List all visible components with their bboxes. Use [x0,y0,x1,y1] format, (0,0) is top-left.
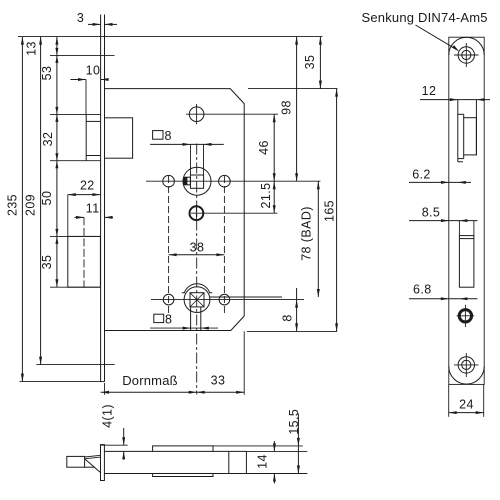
dimension 35 right top [319,37,322,89]
extension line 209 bottom [36,364,114,366]
dimension 11 (deadbolt retracted) [75,216,114,219]
svg-text:15.5: 15.5 [287,409,301,435]
extension + deadbolt bottom edge y287.2 [50,286,100,288]
lock case outline [105,89,245,331]
svg-text:10: 10 [86,64,101,78]
top countersunk screw hole [454,43,479,67]
dimension 24 [449,384,484,416]
locating hole below follower [190,205,204,221]
dimension 22 (deadbolt thrown) [68,193,101,236]
left flank hole bottom group [163,294,174,305]
follower circle [183,167,211,195]
deadbolt pocket in faceplate [459,236,474,288]
end cap line [228,451,230,473]
right flank hole top group [219,175,231,187]
cover boss strip top [153,446,213,452]
square-8 symbol bottom [150,314,218,329]
top hole with cross [186,104,278,124]
top extension line (faceplate top level) [18,36,322,38]
svg-text:32: 32 [41,132,55,147]
svg-text:33: 33 [211,374,226,388]
extension line y297 [210,296,282,298]
latch head top view [67,455,101,473]
dimension 8.5 [409,219,478,236]
dimension 209 line [39,37,42,365]
svg-text:6.2: 6.2 [412,167,431,181]
deadbolt retracted face centerline [83,217,85,287]
extension + deadbolt top edge y236.4 [50,235,100,237]
svg-text:53: 53 [40,66,54,81]
svg-text:165: 165 [323,200,337,222]
follower nose [184,177,190,185]
svg-text:22: 22 [80,179,95,193]
case top extension line right [248,88,338,90]
svg-text:8: 8 [165,129,172,143]
extension line y55 [50,54,115,56]
svg-text:78 (BAD): 78 (BAD) [300,206,314,261]
dimension 8 right [295,288,298,331]
deadbolt head [68,236,101,287]
svg-text:3: 3 [77,11,84,25]
dimension 98 [295,37,298,182]
svg-text:98: 98 [280,100,294,115]
horizontal centerline top group [146,180,320,182]
svg-text:6.8: 6.8 [413,282,432,296]
svg-text:35: 35 [40,255,54,270]
svg-text:8: 8 [281,314,295,321]
follower square [190,175,203,188]
svg-text:4(1): 4(1) [101,404,115,428]
extension line 235 bottom (faceplate bottom) [20,381,101,383]
Senkung label leader arrow [416,25,460,52]
svg-text:46: 46 [257,140,271,155]
extension + latch top edge y114.4 [50,113,101,115]
dimension 6.2 [409,181,471,184]
dimension 12 [420,98,490,101]
dimension 3 (faceplate thickness) [88,23,117,26]
bottom countersunk screw hole [454,353,479,377]
svg-text:35: 35 [303,55,317,70]
svg-text:24: 24 [459,398,474,412]
follower nose filled detail [184,178,187,185]
dimension 6.8 [409,297,478,300]
faceplate edge view (main view vertical strip) [101,37,105,382]
dimension 21.5 [273,181,276,213]
svg-text:12: 12 [422,84,437,98]
svg-text:38: 38 [190,241,205,255]
bottom follower square with diagonals [190,293,204,307]
dimension 15.5 [297,414,300,474]
extension + latch bottom edge y160.7 [50,160,101,162]
svg-text:21.5: 21.5 [259,183,273,209]
dimension 10 (latch protrusion) [70,78,108,114]
svg-text:Senkung DIN74-Am5: Senkung DIN74-Am5 [362,10,488,25]
svg-text:50: 50 [40,191,54,206]
vertical dashed line left holes [168,176,170,313]
dimension 8 follower square [150,143,224,175]
faceplate outline rectangle [449,37,484,384]
extension lines right of body [213,446,307,474]
lock body top view [104,451,246,473]
dimension 14 [273,441,276,484]
svg-text:8: 8 [165,313,172,327]
latch bolt body inside case [105,118,133,158]
svg-text:209: 209 [24,194,38,216]
square-8 symbol top [153,131,163,140]
latch bolt protruding head [86,114,100,160]
faceplate rounded top arc [449,37,484,55]
faceplate rounded bottom arc [449,366,484,384]
dimension 78 (BAD) [317,181,320,297]
spindle slot left line [190,307,192,331]
dimension 165 [335,89,338,332]
bottom follower circle [184,287,210,313]
spindle slot right line [200,307,202,331]
svg-text:11: 11 [86,202,100,216]
vertical dashed line right holes [223,176,225,313]
chain dimension line (13/53/32/50/35) [55,37,58,288]
dimension 4(1) [101,428,128,460]
faceplate section bar [101,445,105,481]
vertical centerline spindle [196,144,198,395]
latch pocket in faceplate [458,100,477,162]
svg-text:13: 13 [25,41,39,56]
left flank hole top group [163,175,175,187]
extension line y213 (21.5 ref, from locating hole) [191,212,277,214]
right flank hole bottom group [219,294,230,305]
case bottom extension line right [247,330,337,332]
svg-text:8.5: 8.5 [422,206,441,220]
bottom follower cam hat [182,284,212,293]
faceplate extension lines above (for 3 dim) [101,15,105,37]
dimension 46 [273,114,276,181]
svg-text:235: 235 [6,194,20,216]
Dornmass dimension line [101,331,245,394]
cover boss strip bottom [153,474,213,477]
dimension 38 [169,253,225,256]
horizontal centerline bottom group [151,299,304,301]
svg-text:Dornmaß: Dornmaß [122,373,178,388]
dimension 235 line [21,37,24,382]
middle threaded hole [457,305,475,327]
svg-text:14: 14 [256,454,270,469]
